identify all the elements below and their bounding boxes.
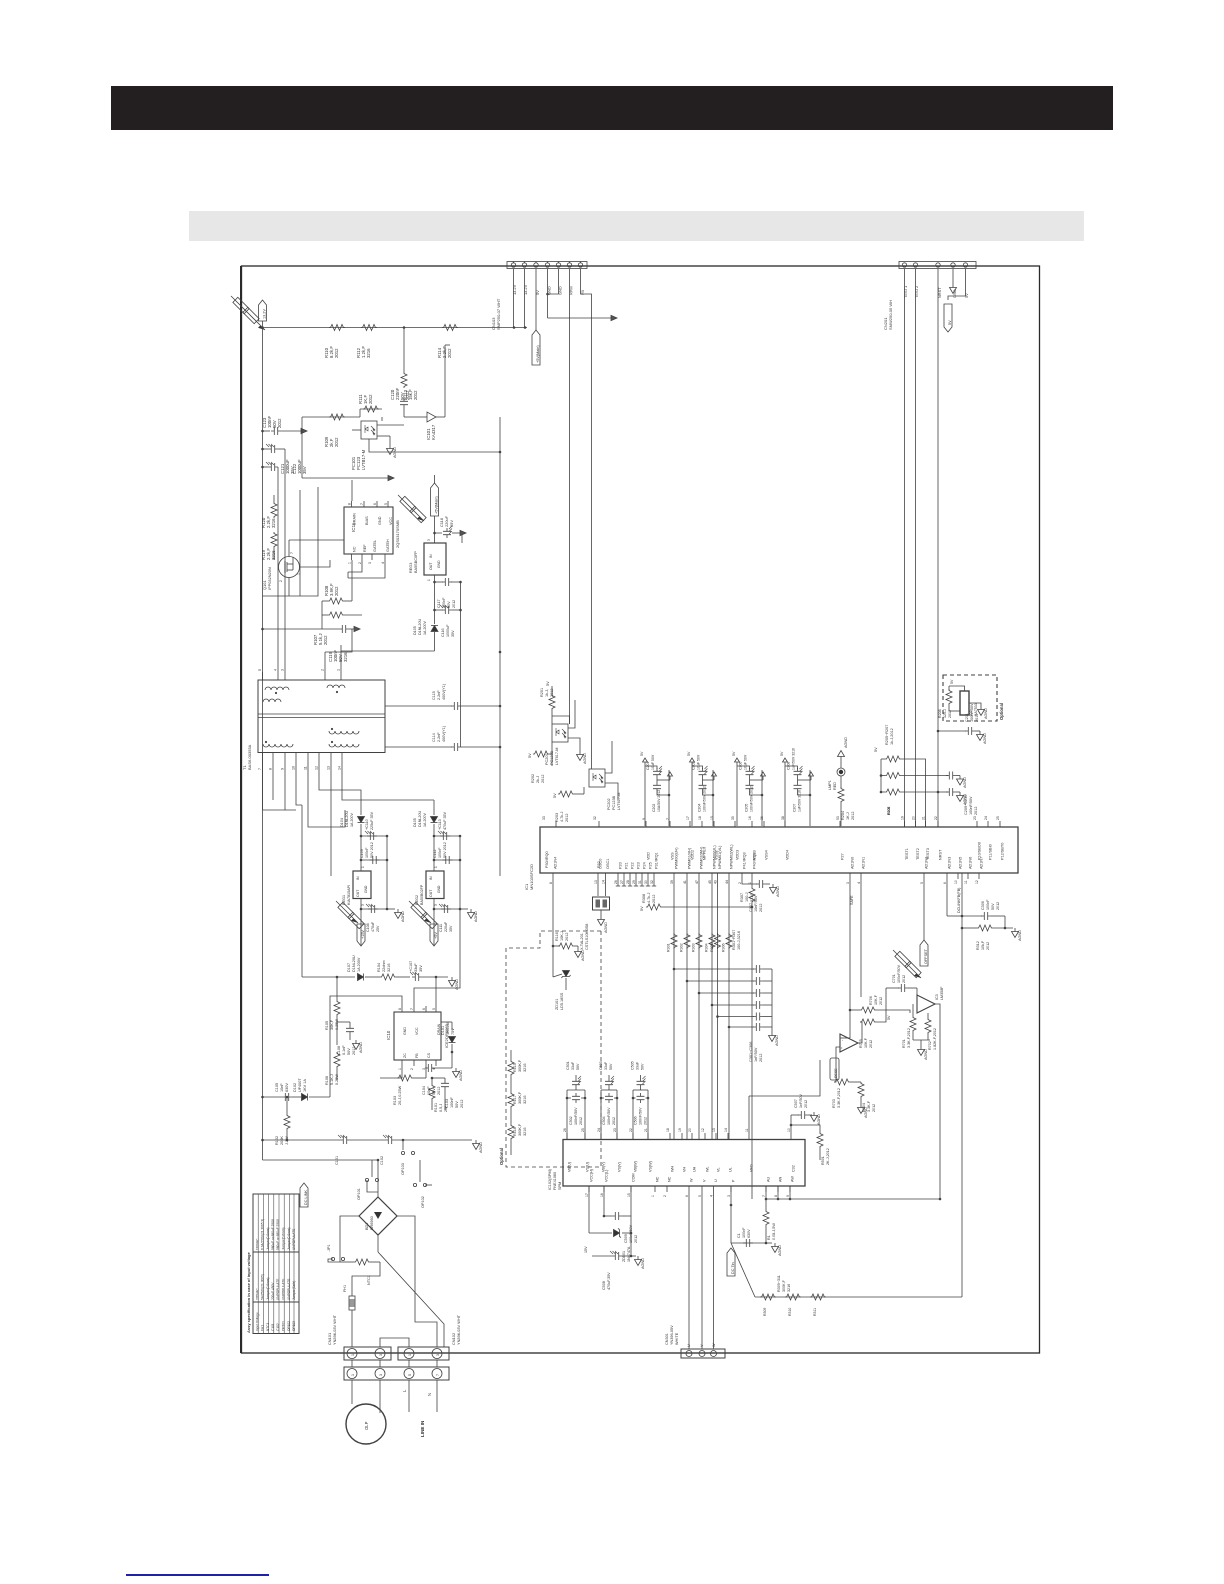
svg-text:VS(V): VS(V) — [618, 1162, 622, 1172]
svg-text:5V: 5V — [640, 751, 644, 756]
svg-text:0.5,J: 0.5,J — [439, 1104, 443, 1112]
svg-text:9: 9 — [642, 818, 646, 820]
resistor R312 — [962, 927, 977, 929]
svg-text:100nF: 100nF — [986, 899, 990, 910]
svg-text:AGND: AGND — [864, 1107, 868, 1118]
wire CN101-CN102 bridge — [380, 1338, 409, 1347]
svg-text:100nF/50V: 100nF/50V — [897, 964, 901, 983]
svg-text:100nF/50V: 100nF/50V — [969, 796, 973, 815]
svg-text:1nF/50V: 1nF/50V — [754, 1047, 758, 1062]
svg-text:32: 32 — [593, 816, 597, 820]
svg-text:3216: 3216 — [271, 550, 276, 560]
ic IC11 2QS03170SMB — [344, 507, 393, 554]
svg-text:50V: 50V — [455, 1101, 459, 1108]
svg-text:VFO: VFO — [750, 1164, 754, 1172]
wire RPM net to IC1 — [552, 716, 570, 724]
transformer bottom pins — [262, 753, 264, 763]
svg-text:R303: R303 — [692, 943, 696, 952]
svg-text:17: 17 — [585, 1193, 589, 1197]
svg-text:X-TAL201: X-TAL201 — [580, 933, 584, 950]
svg-text:1uF/50V 3216: 1uF/50V 3216 — [792, 748, 796, 770]
jumper OP102 — [413, 1183, 426, 1186]
svg-text:D101: D101 — [441, 1026, 445, 1035]
svg-text:IC3: IC3 — [935, 994, 939, 1000]
capacitor C105 — [282, 1093, 292, 1101]
wire bridge connections — [377, 1160, 379, 1197]
wire secondary vertical — [499, 417, 501, 876]
svg-text:GND: GND — [437, 560, 441, 568]
svg-text:AGND: AGND — [817, 1114, 821, 1125]
svg-text:LVT617-M: LVT617-M — [555, 748, 559, 765]
svg-text:AGND: AGND — [474, 911, 478, 922]
svg-text:NTC1: NTC1 — [367, 1275, 371, 1285]
svg-text:AD1N0: AD1N0 — [851, 857, 855, 869]
svg-text:13: 13 — [327, 766, 331, 770]
svg-text:FH1: FH1 — [261, 1325, 265, 1331]
svg-text:AGND: AGND — [778, 1245, 782, 1256]
svg-text:100nF/50V 2012: 100nF/50V 2012 — [750, 786, 754, 812]
svg-text:5V: 5V — [546, 681, 550, 686]
svg-text:1: 1 — [297, 573, 301, 575]
svg-text:ZD501: ZD501 — [622, 1251, 626, 1262]
svg-text:2012: 2012 — [579, 1117, 583, 1125]
svg-text:1: 1 — [351, 1374, 355, 1376]
wire CN103 pin1 — [513, 269, 515, 328]
svg-text:D1NL20U: D1NL20U — [352, 955, 356, 972]
wire D103 elbow — [434, 632, 436, 651]
resistor R103 — [397, 1075, 413, 1081]
svg-text:SMP250-07 WHT: SMP250-07 WHT — [496, 298, 501, 330]
svg-text:C117: C117 — [437, 599, 441, 608]
svg-text:Jumper(0.6mm): Jumper(0.6mm) — [266, 1278, 270, 1301]
resistor R115 divider — [510, 1050, 512, 1060]
svg-text:P20: P20 — [619, 862, 623, 869]
svg-text:33: 33 — [542, 816, 546, 820]
svg-text:OP103: OP103 — [401, 1163, 405, 1175]
svg-text:VB(U): VB(U) — [568, 1162, 572, 1172]
wire TEST1 — [904, 269, 906, 827]
svg-text:2.2nF: 2.2nF — [437, 690, 441, 700]
resistor R203 — [558, 791, 574, 797]
svg-text:5V: 5V — [553, 793, 557, 798]
svg-text:+5V(Main): +5V(Main) — [435, 496, 439, 514]
svg-text:P27: P27 — [841, 853, 845, 860]
svg-text:-: - — [840, 1040, 844, 1041]
svg-text:3216: 3216 — [387, 964, 391, 972]
svg-text:8: 8 — [269, 768, 273, 770]
svg-text:C306: C306 — [981, 901, 985, 910]
resistor R301 — [671, 933, 677, 949]
svg-text:400V(Y1): 400V(Y1) — [442, 683, 446, 700]
svg-text:OUT: OUT — [429, 889, 433, 897]
svg-text:D1NL20U: D1NL20U — [418, 810, 422, 827]
svg-text:6: 6 — [373, 503, 377, 505]
svg-text:UNPOPULATE: UNPOPULATE — [276, 1279, 280, 1300]
svg-text:Optional: Optional — [999, 703, 1004, 720]
regulator REG3 BA5SBC0FP — [424, 543, 446, 575]
svg-text:PC201: PC201 — [545, 753, 549, 765]
svg-text:DC Tin: DC Tin — [731, 1262, 735, 1274]
resistor R105 — [334, 1000, 340, 1016]
resistor R107 — [328, 612, 344, 618]
svg-text:2012: 2012 — [996, 902, 1000, 910]
svg-text:Optional: Optional — [499, 1148, 504, 1165]
svg-text:VCC(H): VCC(H) — [590, 1169, 594, 1182]
resistor R308 — [646, 904, 662, 910]
resistor R701 — [910, 1016, 916, 1032]
svg-text:5: 5 — [258, 669, 262, 671]
ground AGND R312 — [1012, 928, 1019, 938]
svg-text:33uF: 33uF — [414, 963, 418, 972]
footer blue rule — [126, 1574, 269, 1576]
svg-text:2012: 2012 — [323, 635, 328, 645]
wire NRST — [937, 269, 939, 827]
svg-text:R118: R118 — [513, 1127, 517, 1136]
svg-text:3216: 3216 — [523, 1064, 527, 1072]
svg-text:5V: 5V — [640, 906, 644, 911]
svg-text:AD1N5: AD1N5 — [959, 857, 963, 869]
diode D102 UF400T — [302, 1094, 308, 1101]
svg-text:C1: C1 — [737, 1233, 741, 1238]
svg-text:3: 3 — [281, 669, 285, 671]
svg-text:2012: 2012 — [368, 394, 373, 404]
svg-text:LMP1: LMP1 — [828, 780, 832, 790]
svg-text:REF: REF — [363, 544, 367, 552]
resistor R113 — [401, 372, 407, 388]
resistor R703 — [834, 1079, 850, 1085]
svg-text:1A 200V: 1A 200V — [357, 957, 361, 972]
svg-text:LD5.18SS: LD5.18SS — [560, 992, 564, 1010]
svg-text:3: 3 — [379, 1354, 383, 1356]
svg-text:100nF: 100nF — [365, 847, 369, 858]
ic IC2 KA7533 — [960, 691, 969, 715]
svg-text:10uF 50V: 10uF 50V — [744, 754, 748, 770]
svg-text:5V: 5V — [950, 679, 954, 684]
svg-text:AD1N3: AD1N3 — [948, 857, 952, 869]
svg-text:5V: 5V — [780, 751, 784, 756]
capacitor C509 — [612, 1212, 622, 1220]
ground AGND opamp — [918, 1046, 925, 1056]
ground AGND C106 — [349, 1035, 351, 1040]
svg-text:+: + — [840, 1047, 844, 1049]
diode D104 regulator REG1 channel +15V — [360, 800, 362, 815]
svg-text:7: 7 — [290, 552, 294, 554]
svg-text:COM: COM — [632, 1173, 636, 1182]
svg-text:NC: NC — [668, 1176, 672, 1182]
svg-text:6: 6 — [422, 1008, 426, 1010]
wire VCC rows — [588, 1186, 590, 1233]
svg-text:2: 2 — [663, 1195, 667, 1197]
svg-text:5: 5 — [408, 1374, 412, 1376]
svg-text:TEST2: TEST2 — [916, 848, 920, 860]
svg-text:23: 23 — [613, 1128, 617, 1132]
svg-text:NC: NC — [353, 546, 357, 552]
svg-text:VCC(L): VCC(L) — [605, 1170, 609, 1182]
svg-text:1: 1 — [348, 562, 352, 564]
svg-text:R310: R310 — [788, 1308, 792, 1316]
svg-text:26: 26 — [563, 1128, 567, 1132]
zener ZD101 LD5.18SS — [562, 971, 571, 979]
svg-text:3: 3 — [436, 1354, 440, 1356]
svg-text:32: 32 — [650, 880, 654, 884]
jump flag +15V — [336, 901, 358, 923]
svg-text:1: 1 — [361, 866, 365, 868]
svg-text:LINE IN: LINE IN — [420, 1420, 425, 1437]
svg-text:8: 8 — [398, 1008, 402, 1010]
resistor R106 — [334, 1052, 340, 1068]
svg-text:CS: CS — [427, 1052, 431, 1058]
capacitor C507 — [790, 1115, 792, 1125]
svg-text:8: 8 — [348, 503, 352, 505]
resistor R109 — [329, 414, 345, 420]
wire PC201 wiring — [568, 700, 575, 728]
svg-text:2012: 2012 — [541, 775, 545, 783]
jumper OP101 — [365, 1178, 378, 1181]
svg-text:UNPOPULATE: UNPOPULATE — [292, 1229, 296, 1250]
svg-text:560uF or 680uF 250V: 560uF or 680uF 250V — [276, 1218, 280, 1250]
bootstrap capacitor group C503 C504 — [600, 1090, 602, 1140]
svg-text:2k-J: 2k-J — [536, 776, 540, 783]
svg-text:10: 10 — [787, 1128, 791, 1132]
svg-text:11: 11 — [304, 766, 308, 770]
capacitor C117 — [433, 581, 436, 584]
svg-text:OP101: OP101 — [282, 1321, 286, 1331]
svg-text:33uF: 33uF — [571, 1061, 575, 1070]
resistor R117 divider — [508, 1092, 514, 1108]
svg-text:30: 30 — [644, 880, 648, 884]
svg-text:D107: D107 — [347, 963, 351, 972]
svg-text:7: 7 — [410, 1008, 414, 1010]
svg-text:C501: C501 — [566, 1061, 570, 1070]
svg-text:OSC1: OSC1 — [606, 859, 610, 869]
svg-text:0.08-J,5W: 0.08-J,5W — [772, 1223, 776, 1240]
wire PWM verticals — [673, 879, 675, 1139]
wire IC10 connections — [337, 996, 402, 1006]
svg-text:400V(Y1): 400V(Y1) — [442, 725, 446, 742]
wire CN103 pin2 — [524, 269, 526, 328]
svg-text:OP102: OP102 — [287, 1321, 291, 1331]
svg-text:2012: 2012 — [460, 1100, 464, 1108]
svg-text:VS(W): VS(W) — [649, 1161, 653, 1172]
capacitor C118 — [443, 526, 452, 538]
svg-text:17: 17 — [686, 816, 690, 820]
capacitor C120 — [400, 398, 408, 408]
svg-text:2012: 2012 — [334, 437, 339, 447]
svg-text:OP101: OP101 — [357, 1188, 361, 1200]
ground AGND optional — [575, 948, 582, 958]
svg-text:GND: GND — [437, 885, 441, 893]
connector CN301 YN396-05V WHITE — [681, 1349, 725, 1358]
svg-text:R201: R201 — [540, 688, 544, 697]
svg-text:3216: 3216 — [523, 1128, 527, 1136]
svg-text:R305: R305 — [710, 943, 714, 952]
svg-text:15: 15 — [710, 816, 714, 820]
svg-text:R703: R703 — [832, 1099, 836, 1108]
wire CN103 pin3 5V — [535, 269, 537, 330]
svg-text:C202: C202 — [652, 804, 656, 812]
svg-text:2012: 2012 — [634, 1235, 638, 1243]
svg-text:1uF/50V 3216: 1uF/50V 3216 — [798, 790, 802, 812]
svg-text:5V: 5V — [964, 293, 969, 298]
svg-text:6.3A/250V(21.3005.3): 6.3A/250V(21.3005.3) — [261, 1219, 265, 1250]
svg-text:31: 31 — [638, 880, 642, 884]
svg-text:110VAC: 110VAC — [255, 1238, 259, 1250]
svg-text:44: 44 — [725, 880, 729, 884]
svg-text:20: 20 — [912, 816, 916, 820]
svg-text:22: 22 — [934, 816, 938, 820]
svg-text:2012: 2012 — [413, 390, 418, 400]
svg-text:P12/SBT0: P12/SBT0 — [1001, 843, 1005, 860]
svg-text:OSC0: OSC0 — [599, 859, 603, 869]
svg-text:300K,F: 300K,F — [518, 1123, 522, 1136]
svg-text:R207: R207 — [887, 807, 891, 815]
svg-text:+5V: +5V — [434, 932, 438, 939]
svg-text:35: 35 — [731, 816, 735, 820]
optocoupler PC101 — [361, 421, 377, 439]
svg-text:20: 20 — [688, 1128, 692, 1132]
svg-text:1N4747A: 1N4747A — [627, 1246, 631, 1262]
wire NTC to fuse — [352, 1262, 380, 1296]
svg-text:41: 41 — [683, 880, 687, 884]
svg-text:2012: 2012 — [405, 390, 410, 400]
svg-text:C209~C210: C209~C210 — [964, 795, 968, 815]
svg-text:0.1nF: 0.1nF — [342, 1045, 346, 1055]
ground AGND C508 — [635, 1256, 642, 1266]
svg-text:7: 7 — [762, 1195, 766, 1197]
svg-text:U: U — [714, 1179, 718, 1182]
svg-text:6: 6 — [943, 882, 947, 884]
svg-text:7: 7 — [666, 818, 670, 820]
svg-text:GATEL: GATEL — [373, 540, 377, 552]
resistor R204 — [838, 787, 844, 803]
svg-text:DC LINK: DC LINK — [304, 1190, 308, 1205]
terminal strip lower — [344, 1367, 449, 1380]
wire AD1N3 R312 join — [947, 915, 962, 917]
svg-text:5.1K,J: 5.1K,J — [330, 1074, 334, 1085]
svg-text:100nF/50V: 100nF/50V — [639, 1107, 643, 1125]
svg-text:VDD3: VDD3 — [736, 850, 740, 860]
svg-text:2012: 2012 — [437, 1087, 441, 1095]
svg-text:16: 16 — [600, 1193, 604, 1197]
capacitor C103 — [441, 1080, 449, 1090]
svg-text:43: 43 — [714, 880, 718, 884]
svg-text:R302: R302 — [680, 943, 684, 952]
svg-text:C111: C111 — [439, 924, 443, 932]
svg-text:PC123B: PC123B — [612, 795, 616, 810]
svg-text:NPWM01(VL): NPWM01(VL) — [718, 845, 722, 869]
jump flag to C118 — [398, 495, 424, 521]
capacitor C209 — [946, 788, 956, 796]
svg-text:WL: WL — [706, 1166, 710, 1172]
svg-text:+C110: +C110 — [365, 819, 369, 830]
svg-text:R309: R309 — [763, 1308, 767, 1316]
ground AGND C307 — [770, 884, 777, 894]
svg-text:R301~R307: R301~R307 — [732, 930, 736, 950]
diode D103 — [431, 626, 438, 632]
svg-text:VDD4: VDD4 — [786, 850, 790, 860]
svg-text:C506: C506 — [634, 1116, 638, 1125]
svg-text:630V: 630V — [285, 1083, 289, 1092]
svg-text:Input Voltage: Input Voltage — [255, 1312, 259, 1331]
ground AGND R704 — [858, 1104, 865, 1114]
svg-text:2QS03170SMB: 2QS03170SMB — [395, 520, 400, 548]
svg-text:100nF: 100nF — [742, 1227, 746, 1238]
svg-text:C301~C306: C301~C306 — [749, 1042, 753, 1062]
sub-header gray bar — [189, 211, 1084, 241]
svg-text:4: 4 — [274, 669, 278, 671]
svg-text:P24: P24 — [643, 862, 647, 869]
wire TEST2 — [915, 269, 917, 827]
svg-text:C507: C507 — [794, 1099, 798, 1108]
svg-text:UNPOPULATE: UNPOPULATE — [287, 1279, 291, 1300]
net flag DESE — [830, 1058, 839, 1080]
capacitor C102 — [383, 1135, 395, 1144]
wire DCLINK feedback riser — [961, 873, 963, 1297]
svg-text:R101: R101 — [434, 1103, 438, 1112]
wire Q101 connections — [288, 540, 290, 557]
wire sense bus — [777, 1186, 779, 1199]
capacitor C121 — [266, 444, 278, 453]
svg-text:6: 6 — [685, 1195, 689, 1197]
svg-text:+C107: +C107 — [409, 961, 413, 972]
diode D101 1N4148 — [449, 1037, 456, 1043]
svg-text:P21: P21 — [625, 862, 629, 869]
svg-text:C102: C102 — [380, 1156, 384, 1165]
svg-text:50V: 50V — [991, 903, 995, 910]
svg-text:R105: R105 — [325, 1021, 329, 1030]
optocoupler PC201 — [552, 724, 568, 742]
svg-text:5V: 5V — [948, 320, 952, 325]
svg-text:3216: 3216 — [343, 652, 348, 662]
svg-text:4.7k-J: 4.7k-J — [647, 893, 651, 903]
svg-text:R308: R308 — [642, 894, 646, 903]
svg-text:2012: 2012 — [759, 1054, 763, 1062]
resistor R706 — [860, 1007, 876, 1013]
svg-text:3: 3 — [846, 882, 850, 884]
svg-text:C508: C508 — [602, 1281, 606, 1290]
svg-text:26: 26 — [614, 880, 618, 884]
svg-text:2012: 2012 — [974, 807, 978, 815]
svg-text:225uF 35V: 225uF 35V — [370, 811, 374, 830]
svg-text:9: 9 — [281, 768, 285, 770]
capacitor C104 — [425, 1064, 435, 1072]
wire SPM outputs to CN301 — [688, 1192, 690, 1349]
svg-text:C101: C101 — [335, 1156, 339, 1165]
svg-text:14: 14 — [602, 880, 606, 884]
capacitor C701 — [886, 987, 899, 989]
svg-text:2012: 2012 — [902, 975, 906, 983]
svg-text:35V: 35V — [449, 520, 454, 527]
svg-text:FB: FB — [415, 1053, 419, 1058]
svg-text:1: 1 — [427, 579, 431, 581]
svg-text:BR6960: BR6960 — [370, 1216, 374, 1230]
svg-text:2.2nF: 2.2nF — [437, 732, 441, 742]
svg-text:10nF/50V: 10nF/50V — [754, 895, 758, 912]
svg-text:1k-J,2012: 1k-J,2012 — [890, 728, 894, 745]
wire second row feed — [263, 430, 271, 432]
resistor R704 — [858, 1082, 864, 1098]
ground AGND C1 — [772, 1243, 779, 1253]
svg-text:C101: C101 — [271, 1323, 275, 1331]
wire P pin and DC link — [730, 1186, 732, 1243]
svg-text:TEST2: TEST2 — [914, 286, 919, 298]
svg-text:2: 2 — [279, 580, 283, 582]
svg-text:NPWM02(WL): NPWM02(WL) — [730, 844, 734, 869]
svg-text:2012: 2012 — [872, 1104, 876, 1112]
svg-text:5V: 5V — [687, 751, 691, 756]
wire gate rows — [348, 560, 362, 572]
svg-text:12: 12 — [315, 766, 319, 770]
